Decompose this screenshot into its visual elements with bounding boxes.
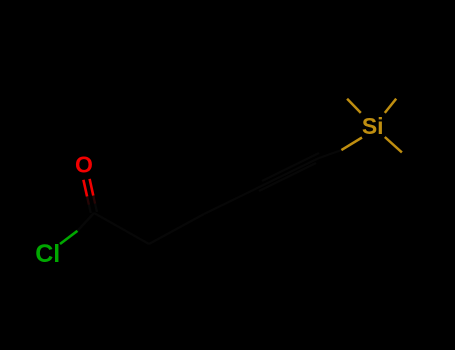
svg-text:O: O: [75, 151, 93, 177]
wire C5-Si dark half: [319, 150, 341, 158]
wire Si-CH3 down-right bond (yellow half): [385, 137, 402, 152]
wire alkyne C3-C4#C5 (near-black triple bond): [204, 153, 319, 214]
wire chain C1-C2 (near-black carbon bond): [94, 213, 149, 244]
wire Si-CH3 up-right bond (yellow half): [385, 99, 396, 113]
wire C1-Cl bond green half: [60, 231, 78, 244]
wire Si-CH3 up-left bond (yellow half): [347, 99, 361, 113]
wire C1=O double bond (red halves): [83, 179, 93, 197]
svg-text:Si: Si: [362, 113, 384, 139]
wire C1=O double bond carbon halves (faded dark red to near-black): [87, 196, 95, 205]
svg-text:Cl: Cl: [35, 240, 60, 268]
wire chain C2-C3 (near-black carbon bond): [149, 214, 204, 244]
wire C1-Cl bond carbon half (near-black): [78, 213, 95, 231]
wire Si-C5 down-left bond (yellow half): [341, 138, 362, 151]
